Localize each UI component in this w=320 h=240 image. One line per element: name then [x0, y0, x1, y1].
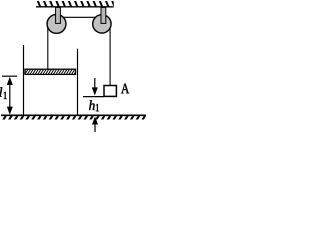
h1 down arrow: [92, 78, 98, 96]
right pulley stem: [101, 7, 106, 23]
h1 tick bar: [83, 96, 104, 98]
h1 up arrow below ground: [92, 116, 98, 132]
l1 tick bar: [2, 75, 17, 77]
label A: [121, 84, 129, 94]
hatched platform: [24, 69, 78, 76]
label h1: [89, 100, 95, 110]
ceiling line: [36, 6, 114, 8]
container left wall: [23, 45, 25, 115]
rope from left pulley down to platform: [47, 21, 49, 69]
label l1: [0, 87, 2, 96]
container right wall: [77, 49, 79, 116]
left pulley stem: [56, 7, 61, 23]
rope between pulleys: [58, 16, 100, 18]
ground line: [1, 114, 146, 116]
right pulley wheel: [93, 15, 111, 33]
ground hatching: [2, 116, 146, 119]
left pulley wheel: [47, 14, 66, 33]
l1 double arrow: [7, 77, 13, 115]
box A: [104, 86, 116, 97]
rope from right pulley down to box A: [109, 21, 111, 86]
